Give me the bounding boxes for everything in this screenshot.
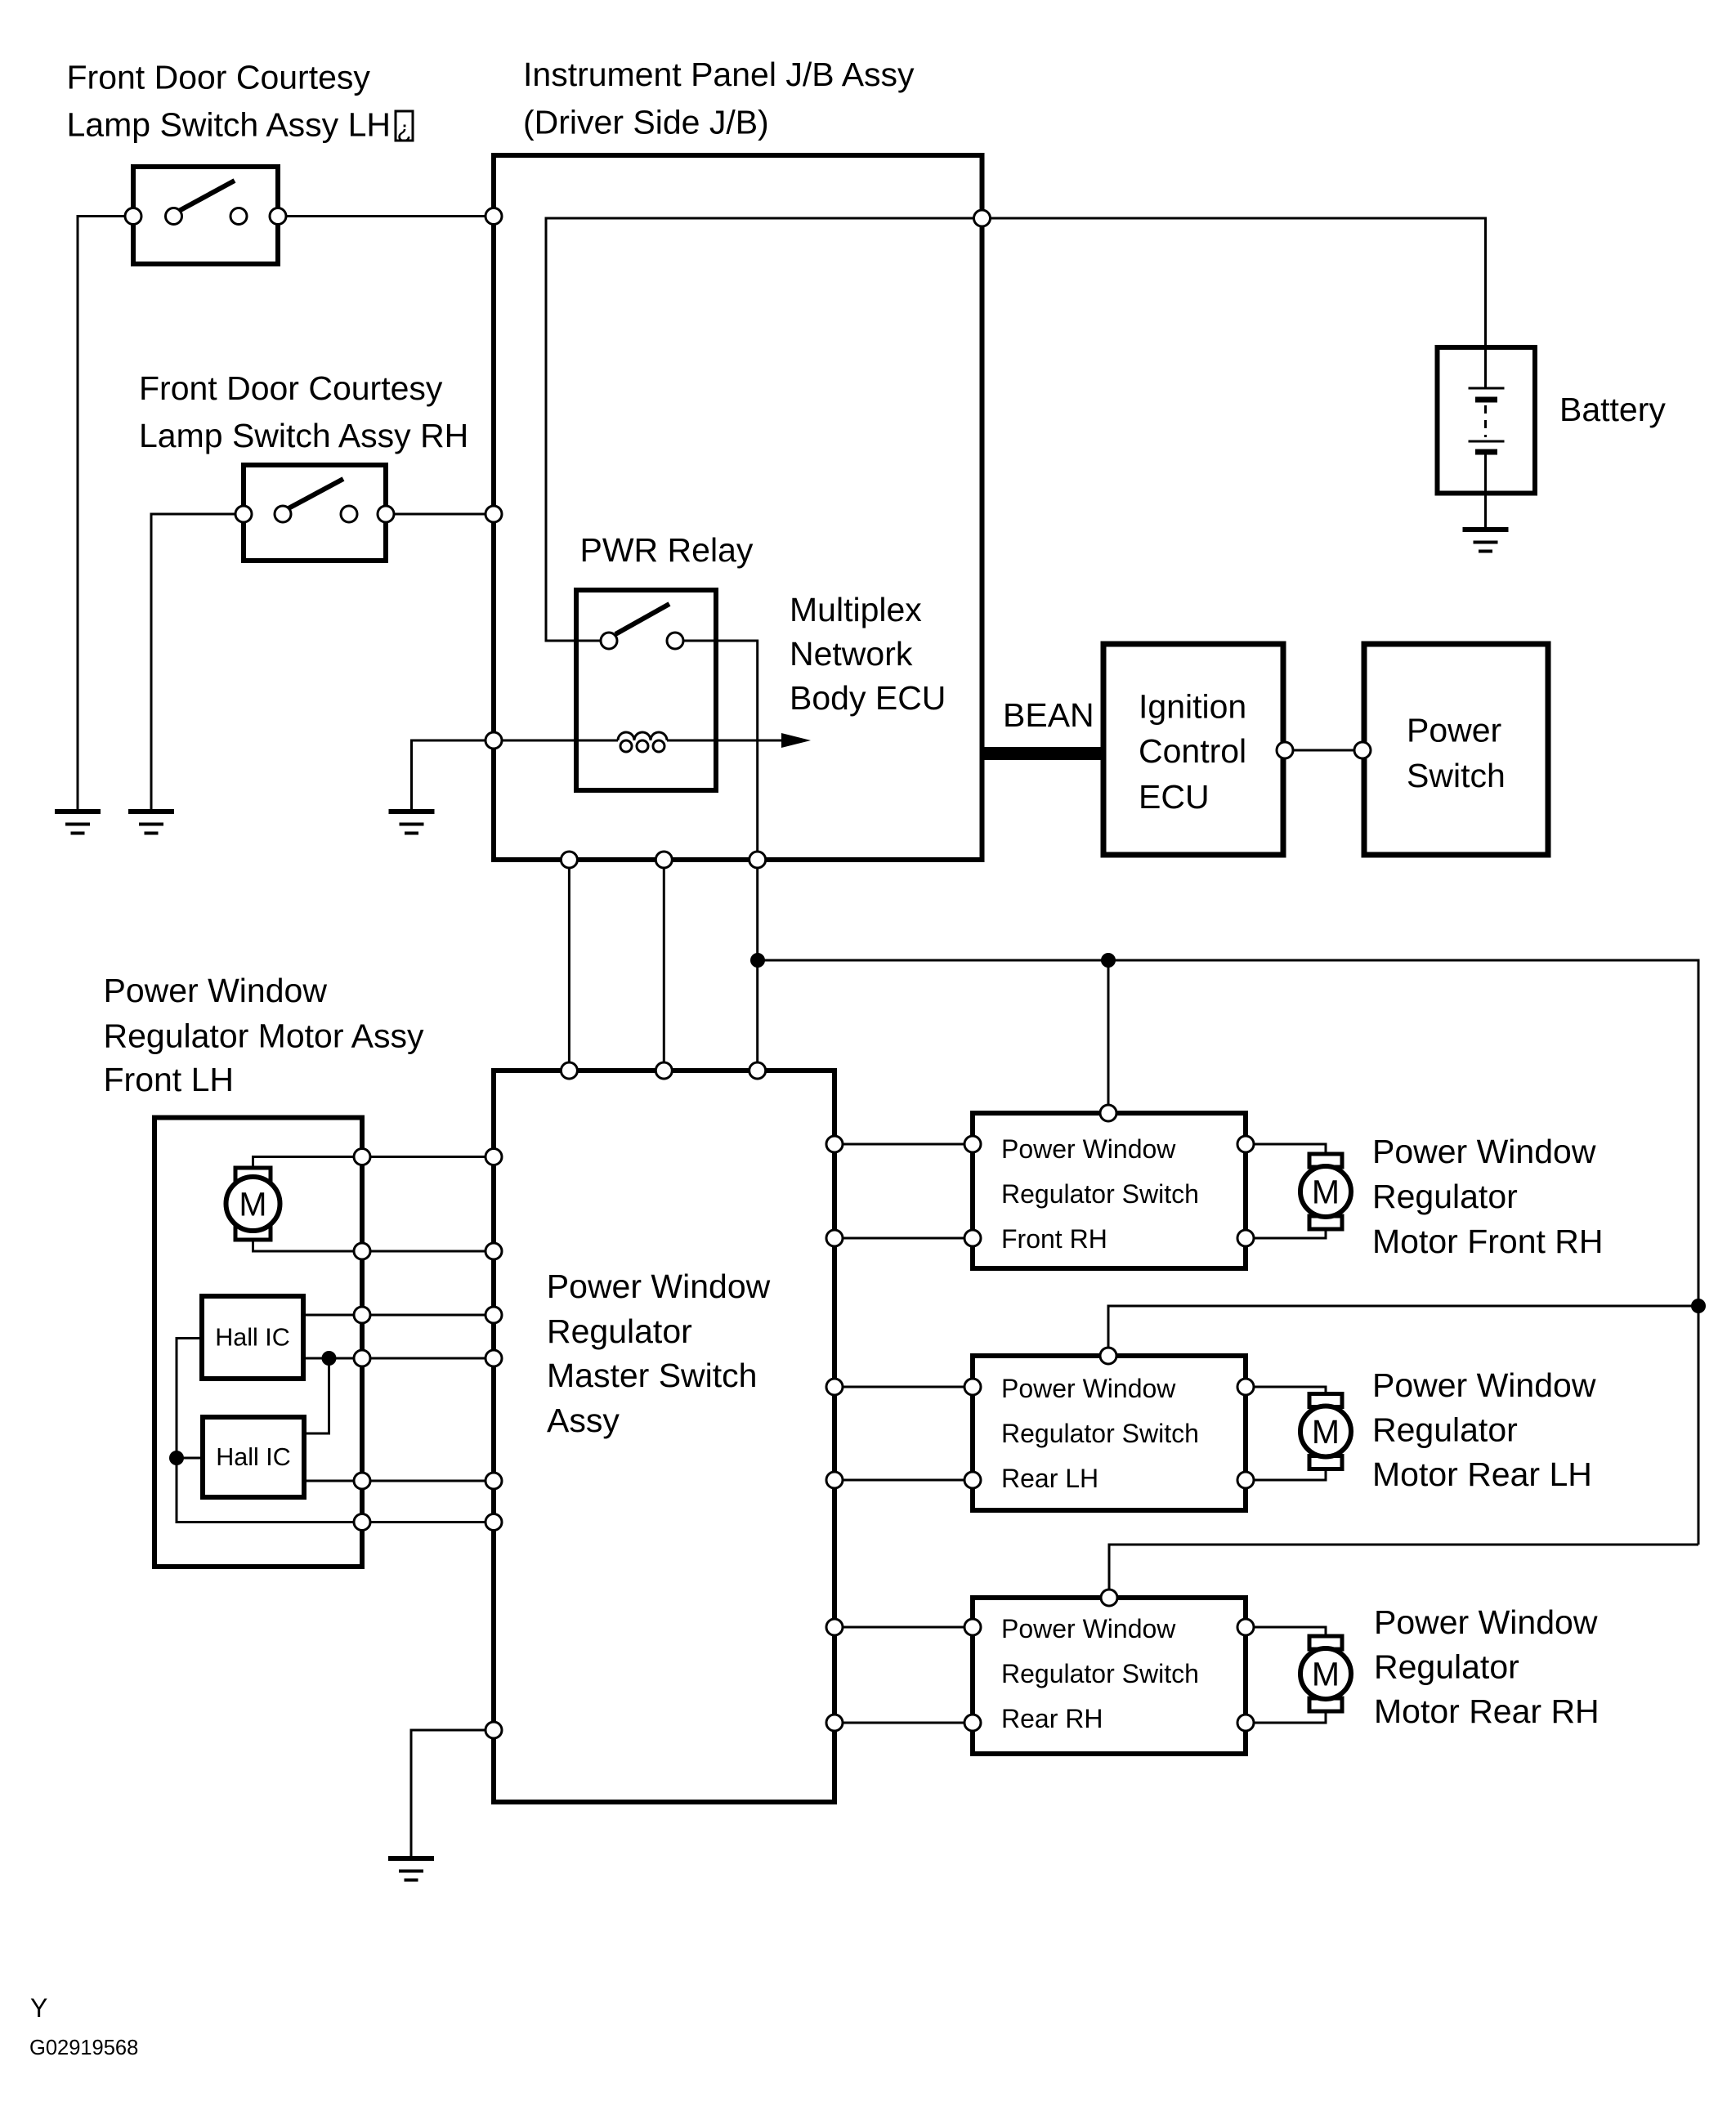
node: RH switch contact a: [275, 506, 291, 522]
label: figure number G02919568: [29, 2037, 138, 2059]
svg-text:Multiplex: Multiplex: [790, 591, 922, 628]
node: J/B coil ground terminal: [485, 732, 502, 749]
wire: battery to ground: [1484, 452, 1487, 528]
wire: master switch ground: [411, 1730, 494, 1857]
node: master left terminal row 4: [485, 1350, 502, 1366]
node: power switch left terminal: [1354, 742, 1371, 758]
svg-text:Regulator: Regulator: [547, 1312, 692, 1350]
wire: switch front RH to motor bottom: [1246, 1227, 1326, 1238]
svg-text:Regulator: Regulator: [1372, 1178, 1518, 1215]
wire: master to switch rear LH upper: [834, 1386, 973, 1388]
power window regulator motor assy front LH box: [154, 1118, 362, 1567]
power window regulator switch rear RH box: [973, 1598, 1246, 1754]
wire: feed branch to switch rear RH: [1109, 1545, 1698, 1598]
node: master switch top terminal 1: [561, 1062, 577, 1079]
junction: feed bus tap: [750, 953, 765, 968]
wire: relay coil output to arrow: [667, 740, 781, 742]
node: motor box terminal row 2: [354, 1243, 370, 1259]
node: switch front RH right lower: [1237, 1230, 1254, 1246]
label: front door courtesy lamp switch assy LH: [67, 59, 414, 144]
motor M front RH: [1300, 1154, 1351, 1229]
hall IC 1 box: [202, 1296, 303, 1379]
node: switch rear RH right lower: [1237, 1715, 1254, 1731]
wire: switch rear LH to motor bottom: [1246, 1467, 1326, 1480]
wire: switch rear LH to motor top: [1246, 1387, 1326, 1395]
node: J/B bottom terminal 1: [561, 852, 577, 868]
wire: switch rear RH to motor top: [1246, 1627, 1326, 1638]
ground: battery: [1463, 530, 1509, 552]
wire: hall IC1 lower output row: [303, 1357, 494, 1360]
svg-text:BEAN: BEAN: [1003, 696, 1094, 734]
label: power window regulator motor front RH: [1372, 1133, 1604, 1260]
wire: ignition ECU to power switch: [1283, 749, 1364, 752]
node: master left terminal row 5: [485, 1473, 502, 1489]
node: J/B bottom terminal 2: [655, 852, 672, 868]
label: power switch: [1407, 712, 1506, 795]
wire: master to switch rear LH lower: [834, 1479, 973, 1482]
wire: RH courtesy switch to J/B: [386, 513, 494, 516]
node: switch rear RH left upper: [964, 1619, 981, 1635]
power window regulator switch front RH box: [973, 1113, 1246, 1268]
svg-text:Front Door Courtesy: Front Door Courtesy: [67, 59, 371, 96]
wire: relay coil feed with ground branch: [412, 740, 619, 812]
ground: RH courtesy switch: [128, 812, 174, 834]
node: LH switch terminal left edge: [125, 208, 141, 225]
node: motor box terminal row 4: [354, 1350, 370, 1366]
wire: LH courtesy switch to ground rail: [78, 217, 133, 812]
node: switch rear LH left upper: [964, 1379, 981, 1395]
label: multiplex network body ECU: [790, 591, 946, 717]
label: power window regulator motor rear LH: [1372, 1366, 1596, 1493]
node: J/B battery terminal: [974, 210, 991, 226]
svg-text:Power Window: Power Window: [1372, 1366, 1596, 1404]
wire: master to switch rear RH upper: [834, 1626, 973, 1629]
svg-text:Hall IC: Hall IC: [216, 1443, 291, 1471]
wire: feed branch to switch rear LH: [1108, 1306, 1698, 1356]
node: J/B bottom terminal 3: [749, 852, 766, 868]
instrument panel J/B box: [494, 155, 982, 860]
svg-text:Y: Y: [30, 1993, 47, 2023]
svg-text:Rear LH: Rear LH: [1001, 1464, 1098, 1493]
label: switch rear LH text: [1001, 1374, 1199, 1493]
hall IC 2 box: [203, 1417, 304, 1497]
svg-text:Switch: Switch: [1407, 757, 1506, 794]
svg-text:Network: Network: [790, 635, 913, 673]
svg-text:M: M: [239, 1186, 266, 1223]
junction: front RH feed tap: [1101, 953, 1116, 968]
svg-text:Motor Rear RH: Motor Rear RH: [1374, 1692, 1600, 1730]
label: PWR relay: [580, 531, 754, 569]
svg-text:PWR Relay: PWR Relay: [580, 531, 754, 569]
node: switch front RH left lower: [964, 1230, 981, 1246]
node: switch rear RH left lower: [964, 1715, 981, 1731]
wire: hall IC1 to hall IC2 link: [304, 1358, 329, 1433]
node: motor box terminal row 3: [354, 1307, 370, 1323]
node: switch rear RH top terminal: [1101, 1590, 1117, 1606]
node: switch rear LH right lower: [1237, 1472, 1254, 1488]
wire: hall IC1 output row: [303, 1314, 494, 1317]
node: RH switch terminal left edge: [235, 506, 252, 522]
node: relay contact right: [667, 633, 683, 649]
label: BEAN: [1003, 696, 1094, 734]
courtesy lamp switch assy LH blade: [179, 181, 235, 211]
svg-text:Body ECU: Body ECU: [790, 679, 946, 717]
node: master ground terminal: [485, 1722, 502, 1738]
node: ignition ECU right terminal: [1277, 742, 1293, 758]
node: switch rear RH right upper: [1237, 1619, 1254, 1635]
node: RH switch contact b: [341, 506, 357, 522]
svg-text:Regulator: Regulator: [1374, 1648, 1519, 1686]
power window regulator switch rear LH box: [973, 1356, 1246, 1510]
svg-text:Instrument Panel J/B Assy: Instrument Panel J/B Assy: [523, 56, 915, 93]
svg-text:Power Window: Power Window: [104, 972, 328, 1009]
svg-text:G02919568: G02919568: [29, 2037, 138, 2059]
wire: J/B connector 3 to master switch: [756, 860, 758, 1071]
svg-text:Power Window: Power Window: [1001, 1374, 1176, 1403]
wire: relay output to J/B bottom connector: [675, 641, 758, 860]
node: master left terminal row 6: [485, 1514, 502, 1531]
node: LH switch terminal right edge: [270, 208, 286, 225]
node: switch front RH right upper: [1237, 1136, 1254, 1152]
svg-text:Hall IC: Hall IC: [215, 1323, 290, 1351]
node: motor box terminal row 5: [354, 1473, 370, 1489]
svg-text:Power: Power: [1407, 712, 1501, 749]
wire: hall IC supply bus: [177, 1339, 494, 1523]
node: switch front RH left upper: [964, 1136, 981, 1152]
junction: rear LH feed tap: [1691, 1299, 1706, 1313]
power switch box: [1364, 644, 1548, 855]
junction: hall IC1 output: [322, 1351, 337, 1366]
node: motor box terminal row 1: [354, 1149, 370, 1165]
label: switch front RH text: [1001, 1134, 1199, 1254]
wire: J/B connector 2 to master switch: [663, 860, 665, 1071]
wire: master to switch front RH upper: [834, 1143, 973, 1146]
wire: feed branch to switch front RH: [1107, 960, 1110, 1113]
node: master right terminal row 5: [826, 1619, 843, 1635]
wire: RH courtesy switch to ground rail: [151, 514, 244, 812]
motor M rear LH: [1300, 1394, 1351, 1469]
wire: master to switch rear RH lower: [834, 1722, 973, 1724]
node: switch rear LH right upper: [1237, 1379, 1254, 1395]
BEAN bus bar: [984, 747, 1103, 760]
svg-text:Power Window: Power Window: [1374, 1603, 1598, 1641]
svg-text:Power Window: Power Window: [1001, 1614, 1176, 1643]
motor M rear RH: [1300, 1636, 1351, 1711]
wire: hall IC2 output row: [304, 1480, 494, 1482]
svg-text:Regulator Switch: Regulator Switch: [1001, 1659, 1199, 1688]
ground: LH courtesy switch: [55, 812, 101, 834]
label: ignition control ECU: [1139, 688, 1246, 816]
wire: LH courtesy switch to J/B: [278, 215, 494, 217]
svg-text:Battery: Battery: [1559, 391, 1666, 428]
wire: power feed bus to right rail: [758, 960, 1698, 1545]
wire: switch front RH to motor top: [1246, 1144, 1326, 1156]
battery box: [1438, 347, 1536, 494]
svg-text:Lamp Switch Assy LH: Lamp Switch Assy LH: [67, 106, 391, 144]
node: master left terminal row 2: [485, 1243, 502, 1259]
label: switch rear RH text: [1001, 1614, 1199, 1733]
svg-text:Front Door Courtesy: Front Door Courtesy: [139, 369, 443, 407]
label: power window regulator motor assy front LH: [104, 972, 424, 1098]
courtesy lamp switch assy RH blade: [289, 479, 343, 508]
arrow to multiplex network body ECU: [781, 733, 811, 748]
svg-text:(Driver Side J/B): (Driver Side J/B): [523, 104, 769, 141]
node: master switch top terminal 3: [749, 1062, 766, 1079]
svg-text:Power Window: Power Window: [1001, 1134, 1176, 1164]
courtesy lamp switch assy RH box: [244, 465, 386, 561]
node: master right terminal row 2: [826, 1230, 843, 1246]
power window regulator master switch assy box: [494, 1071, 834, 1802]
svg-text:Motor Rear LH: Motor Rear LH: [1372, 1455, 1592, 1493]
node: switch front RH top terminal: [1100, 1105, 1116, 1121]
label: power window regulator motor rear RH: [1374, 1603, 1600, 1730]
node: master right terminal row 4: [826, 1472, 843, 1488]
ground: master switch: [388, 1858, 434, 1880]
node: LH switch contact b: [230, 208, 247, 225]
wire: motor front LH bottom brush row: [253, 1237, 494, 1251]
svg-text:Master Switch: Master Switch: [547, 1357, 757, 1394]
node: switch rear LH top terminal: [1100, 1348, 1116, 1364]
svg-text:Ignition: Ignition: [1139, 688, 1246, 726]
wire: hall IC2 left pin: [177, 1457, 203, 1460]
node: master right terminal row 1: [826, 1136, 843, 1152]
svg-text:ECU: ECU: [1139, 778, 1210, 816]
wire: motor front LH top brush row: [253, 1157, 494, 1171]
motor M front LH: [226, 1168, 280, 1240]
label: page marker Y: [30, 1993, 47, 2023]
svg-text:M: M: [1312, 1413, 1340, 1451]
wire: J/B internal from battery node to relay contact: [546, 218, 982, 641]
node: master left terminal row 3: [485, 1307, 502, 1323]
node: J/B terminal from LH switch: [485, 208, 502, 225]
label: power window regulator master switch assy: [547, 1268, 771, 1439]
junction: hall IC2 left pin: [169, 1451, 184, 1465]
svg-text:Control: Control: [1139, 732, 1246, 770]
node: LH switch contact a: [166, 208, 182, 225]
svg-text:Regulator Switch: Regulator Switch: [1001, 1419, 1199, 1448]
node: motor box terminal row 6: [354, 1514, 370, 1531]
label: battery: [1559, 391, 1666, 428]
svg-text:Motor Front RH: Motor Front RH: [1372, 1223, 1604, 1260]
svg-text:Assy: Assy: [547, 1402, 620, 1439]
svg-text:Rear RH: Rear RH: [1001, 1704, 1103, 1733]
ground: relay coil: [389, 812, 435, 834]
svg-text:Power Window: Power Window: [547, 1268, 771, 1305]
svg-text:Power Window: Power Window: [1372, 1133, 1596, 1170]
svg-text:Lamp Switch Assy RH: Lamp Switch Assy RH: [139, 417, 468, 454]
battery cells: [1469, 347, 1505, 452]
svg-text:Regulator Switch: Regulator Switch: [1001, 1179, 1199, 1209]
PWR relay box: [576, 590, 716, 790]
node: master right terminal row 3: [826, 1379, 843, 1395]
node: relay contact left: [601, 633, 617, 649]
node: master right terminal row 6: [826, 1715, 843, 1731]
svg-text:Regulator: Regulator: [1372, 1411, 1518, 1449]
node: master left terminal row 1: [485, 1149, 502, 1165]
node: J/B terminal from RH switch: [485, 506, 502, 522]
svg-text:Front RH: Front RH: [1001, 1224, 1107, 1254]
svg-text:Regulator Motor Assy: Regulator Motor Assy: [104, 1017, 424, 1055]
courtesy lamp switch assy LH box: [133, 167, 278, 264]
PWR relay coil: [618, 732, 667, 752]
wire: switch rear RH to motor bottom: [1246, 1710, 1326, 1723]
svg-text:M: M: [1312, 1174, 1340, 1211]
node: switch rear LH left lower: [964, 1472, 981, 1488]
ignition control ECU box: [1103, 644, 1283, 855]
label: front door courtesy lamp switch assy RH: [139, 369, 468, 454]
node: master switch top terminal 2: [655, 1062, 672, 1079]
wire: master to switch front RH lower: [834, 1237, 973, 1240]
wire: J/B to battery: [982, 218, 1486, 347]
node: RH switch terminal right edge: [378, 506, 394, 522]
PWR relay blade: [615, 604, 669, 634]
label: instrument panel J/B assy: [523, 56, 915, 141]
svg-text:¿: ¿: [396, 116, 411, 143]
wire: J/B connector 1 to master switch: [568, 860, 570, 1071]
svg-text:M: M: [1312, 1656, 1340, 1693]
svg-text:Front LH: Front LH: [104, 1061, 235, 1098]
